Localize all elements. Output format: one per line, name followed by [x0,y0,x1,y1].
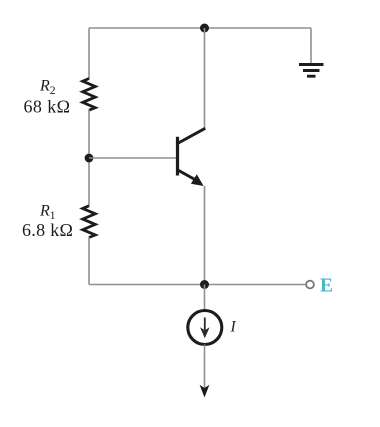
svg-text:R2: R2 [39,78,56,98]
resistor R1 [83,206,96,238]
transistor Q1 [177,128,206,186]
svg-text:68 kΩ: 68 kΩ [24,97,71,117]
resistor R2 [83,79,96,111]
svg-text:I: I [230,319,237,336]
wire collector vertical [204,28,206,129]
ground [299,65,324,77]
wire below current source [204,345,206,389]
wire ground stub [310,28,312,64]
arrow output down [200,385,210,398]
svg-text:E: E [320,276,333,297]
wire emitter vertical [204,186,206,285]
terminal E open circle [306,281,314,289]
node bottom junction [200,280,209,289]
current source I [188,311,222,345]
wire left vertical upper [88,28,90,79]
wire left vertical lower [88,237,90,284]
node base junction [85,154,94,163]
wire base horizontal [89,157,177,159]
wire top horizontal [89,27,311,29]
node top junction [200,24,209,33]
svg-text:6.8 kΩ: 6.8 kΩ [22,220,73,240]
wire to current source [204,285,206,311]
wire left vertical middle [88,110,90,207]
wire bottom horizontal [89,284,306,286]
